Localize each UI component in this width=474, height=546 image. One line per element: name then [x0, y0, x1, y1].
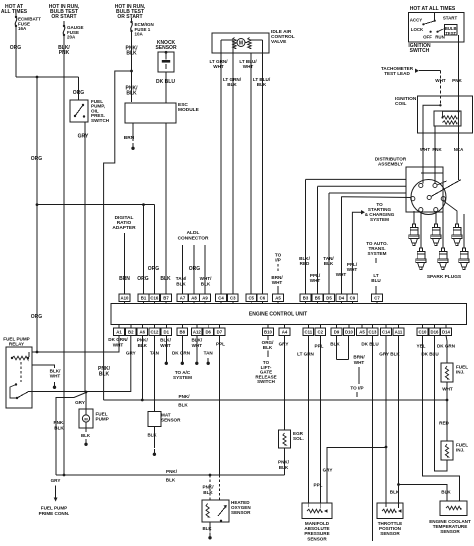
- svg-text:TAN: TAN: [150, 351, 160, 356]
- svg-text:BLK: BLK: [324, 261, 334, 266]
- svg-text:PNK/: PNK/: [137, 338, 149, 343]
- svg-text:WHT: WHT: [272, 280, 283, 285]
- svg-text:BLK: BLK: [178, 403, 188, 408]
- wire BLK pin D9 to junction U: [336, 335, 338, 359]
- ground arrow fuel pump: [85, 439, 87, 443]
- svg-text:WHT: WHT: [442, 387, 453, 392]
- svg-text:BLK: BLK: [126, 91, 137, 97]
- wire BLK/WHT pin B8 to arrow: [181, 335, 183, 358]
- svg-text:NCA: NCA: [454, 147, 464, 152]
- svg-text:TEST: TEST: [445, 31, 456, 36]
- wire TAN pin A12 to arrow: [196, 335, 198, 358]
- svg-text:PNK/: PNK/: [179, 394, 191, 399]
- wire GRY pin A4 to EGR solenoid: [284, 335, 286, 430]
- svg-text:PPL: PPL: [315, 344, 324, 349]
- svg-text:TEST LEAD: TEST LEAD: [384, 71, 410, 76]
- svg-text:SWITCH: SWITCH: [91, 118, 110, 123]
- wire DK GRN pin D14 to fuel injector 1: [446, 335, 447, 363]
- svg-text:PPL: PPL: [314, 483, 323, 488]
- wire ORG/BLK pin B10 to liftgate switch: [267, 335, 269, 340]
- svg-text:ORG: ORG: [137, 276, 149, 282]
- svg-text:B5: B5: [315, 296, 321, 301]
- svg-text:BLK: BLK: [176, 282, 186, 287]
- svg-text:A5: A5: [275, 296, 281, 301]
- pin D5 (ECU top): [328, 302, 330, 304]
- pin D1 (ECU bottom): [165, 325, 167, 329]
- svg-text:RED: RED: [439, 421, 449, 426]
- svg-text:C10: C10: [419, 329, 427, 334]
- svg-text:SENSOR: SENSOR: [440, 529, 460, 534]
- svg-text:INJ.: INJ.: [456, 448, 464, 453]
- svg-text:20A: 20A: [67, 35, 76, 40]
- svg-text:PNK/: PNK/: [278, 460, 290, 465]
- pin C11 (ECU bottom): [307, 325, 309, 329]
- svg-text:BLK: BLK: [160, 276, 171, 282]
- pin D16 (ECU bottom): [434, 325, 436, 329]
- wire WHT coil to distributor: [422, 133, 424, 167]
- distributor rotor line to coil tower: [431, 180, 461, 197]
- svg-text:BLK: BLK: [257, 82, 267, 87]
- component fuel pump: [79, 409, 93, 428]
- svg-text:A9: A9: [202, 296, 208, 301]
- svg-text:OR START: OR START: [117, 14, 142, 20]
- wire PPL/WHT crank signal to pin C9: [352, 212, 361, 294]
- wire PNK from ignition switch to coil: [458, 35, 460, 111]
- ignition switch battery stub: [434, 13, 436, 21]
- wire PNK/BLK ignition rail y=400: [104, 399, 447, 401]
- svg-text:OFF: OFF: [423, 35, 432, 40]
- svg-text:CONNECTOR: CONNECTOR: [178, 235, 209, 241]
- svg-text:BLK: BLK: [330, 342, 340, 347]
- spark plug 3: [455, 224, 458, 228]
- wire LT BLU/BLK IAC to pin C6: [261, 53, 263, 294]
- svg-text:PNK/: PNK/: [203, 485, 215, 490]
- IAC left coil: [233, 38, 237, 49]
- svg-text:C7: C7: [374, 296, 380, 301]
- wire dash to TO I/P: [358, 367, 360, 384]
- spark plug 1: [412, 224, 415, 228]
- svg-text:ORG: ORG: [31, 314, 43, 320]
- svg-text:BLK: BLK: [166, 478, 176, 483]
- wire DK BLU pin D16 injector return: [435, 335, 448, 471]
- svg-text:WHT: WHT: [336, 272, 347, 277]
- wire ORG horizontal rail y=204.6: [37, 204, 154, 206]
- spark plug 4: [419, 248, 422, 252]
- svg-text:B1: B1: [141, 296, 147, 301]
- pin B7 (ECU top): [165, 302, 167, 304]
- node junction PNK/BLK rail at (142.5,400): [141, 399, 144, 402]
- svg-text:D5: D5: [326, 296, 332, 301]
- svg-text:GRY BLK: GRY BLK: [379, 352, 400, 357]
- svg-text:BLK: BLK: [54, 425, 64, 430]
- wire PPL pin D6 down to oxygen sensor rail: [218, 335, 220, 475]
- svg-text:BLK: BLK: [227, 82, 237, 87]
- component TPS sensor: [377, 503, 403, 519]
- svg-text:SYSTEM: SYSTEM: [173, 375, 192, 380]
- svg-text:WHT: WHT: [50, 374, 61, 379]
- svg-text:PNK: PNK: [432, 147, 442, 152]
- svg-text:ORG: ORG: [189, 266, 201, 272]
- svg-text:ALDL: ALDL: [187, 230, 200, 236]
- svg-text:ORG: ORG: [10, 45, 22, 51]
- arrow D1 to A/C: [181, 358, 183, 362]
- wire WHT dashed from tach lead to ignition coil: [439, 71, 441, 106]
- svg-text:BRN: BRN: [119, 276, 130, 282]
- svg-text:PUMP: PUMP: [96, 417, 109, 422]
- svg-text:C5: C5: [248, 296, 254, 301]
- svg-text:SPARK PLUGS: SPARK PLUGS: [427, 274, 462, 280]
- svg-text:SWITCH: SWITCH: [410, 48, 430, 54]
- ignition switch contacts: [422, 23, 424, 25]
- wire BLK ground to TPS: [398, 485, 400, 504]
- svg-text:BLU: BLU: [371, 278, 381, 283]
- svg-text:DK GRN: DK GRN: [172, 351, 191, 356]
- svg-text:D10: D10: [345, 329, 353, 334]
- svg-text:SENSOR: SENSOR: [155, 45, 177, 51]
- wire ORG ALDL to pin A8: [193, 245, 195, 294]
- svg-text:B2: B2: [128, 329, 134, 334]
- svg-text:ALL TIMES: ALL TIMES: [1, 9, 28, 15]
- wire LT GRN pin C11 to MAP sensor: [307, 335, 309, 503]
- svg-text:A6: A6: [140, 329, 146, 334]
- svg-text:BRN/: BRN/: [353, 355, 365, 360]
- svg-text:BLK: BLK: [201, 282, 211, 287]
- wire YEL pin C10 to ECT sensor: [423, 335, 460, 501]
- wire BLK fuel pump to ground: [85, 428, 87, 432]
- fuse GAUGE FUSE 20A: [63, 25, 65, 27]
- wire GRY reference rail to MAP: [327, 448, 386, 504]
- svg-text:PNK: PNK: [59, 50, 70, 56]
- arrow to starting system: [361, 210, 365, 214]
- ignition coil internal connections: [439, 104, 441, 106]
- svg-text:TO I/P: TO I/P: [350, 386, 363, 391]
- component fuel pump relay box: [6, 347, 32, 408]
- svg-text:C13: C13: [369, 329, 377, 334]
- svg-text:B10: B10: [264, 329, 272, 334]
- wire PPL dashed to oxygen sensor: [218, 475, 220, 500]
- svg-text:YEL: YEL: [417, 344, 426, 349]
- component MAP sensor: [302, 503, 332, 519]
- wire WHT/BLK ALDL to pin A9: [204, 245, 206, 294]
- pin A6 (ECU bottom): [141, 325, 143, 329]
- svg-text:VALVE: VALVE: [271, 39, 287, 45]
- fuse ECM/BATT FUSE 16A: [15, 16, 17, 18]
- wire BLK ground rail to ECT: [399, 485, 448, 502]
- ignition switch bulb test terminal box: [445, 25, 458, 36]
- svg-text:D7: D7: [217, 329, 223, 334]
- svg-text:C6: C6: [260, 296, 266, 301]
- distributor internal link: [421, 172, 443, 174]
- svg-text:ENGINE CONTROL UNIT: ENGINE CONTROL UNIT: [249, 312, 307, 318]
- wire GRY junction down to TPS: [385, 447, 387, 503]
- node junction at (37,204.6): [36, 203, 39, 206]
- wire ORG from ECM/BATT fuse down: [15, 13, 17, 16]
- wire ORG to pin C16: [153, 205, 155, 295]
- svg-text:OR START: OR START: [51, 14, 76, 20]
- pin C10 (ECU bottom): [422, 325, 424, 329]
- pin D4 (ECU top): [340, 302, 342, 304]
- svg-text:D9: D9: [334, 329, 340, 334]
- pin A10 (ECU top): [124, 302, 126, 304]
- ground arrow BRN (ESC): [132, 143, 134, 147]
- pin D7 (ECU bottom): [218, 325, 220, 329]
- wire spark plug 6: [463, 214, 465, 248]
- svg-text:RELAY: RELAY: [9, 342, 24, 347]
- component ignition coil box: [418, 96, 473, 133]
- wire ORG vertical main drop x=37: [36, 77, 38, 352]
- svg-text:WHT/: WHT/: [200, 276, 212, 281]
- svg-text:BLK: BLK: [263, 345, 273, 350]
- svg-text:SWITCH: SWITCH: [257, 379, 275, 384]
- pin C3 (ECU top): [232, 302, 234, 304]
- svg-text:GRY: GRY: [323, 468, 333, 473]
- wire GRY junction to fuel pump: [85, 392, 87, 409]
- svg-text:GRY: GRY: [78, 134, 89, 140]
- svg-text:BLK: BLK: [138, 343, 148, 348]
- pin A11 (ECU bottom): [398, 325, 400, 329]
- wire PPL pin C2 to MAP sensor: [319, 335, 321, 503]
- pin A1 (ECU bottom): [118, 325, 120, 329]
- tachometer test lead arrow and line: [415, 69, 419, 73]
- wire LT BLU to pin C7: [375, 286, 377, 294]
- wire DK GRN/WHT pin A1 to fuel pump relay coil: [32, 335, 119, 352]
- svg-text:C3: C3: [230, 296, 236, 301]
- svg-text:C16: C16: [150, 296, 158, 301]
- svg-text:DK BLU: DK BLU: [361, 342, 379, 347]
- pin B5 (ECU top): [317, 302, 319, 304]
- svg-text:A5: A5: [359, 329, 365, 334]
- svg-text:TAN: TAN: [204, 351, 214, 356]
- pin C4 (ECU top): [220, 302, 222, 304]
- node junction rail end at (447,400): [446, 399, 449, 402]
- spark plug 5: [441, 248, 444, 252]
- svg-text:10A: 10A: [135, 32, 144, 37]
- svg-text:BLK: BLK: [147, 433, 157, 438]
- component ignition switch box: [409, 13, 465, 43]
- component knock sensor: [158, 52, 174, 72]
- node junction sensor ground at (391.5,484.5): [397, 483, 400, 486]
- svg-text:WHT: WHT: [160, 343, 171, 348]
- svg-text:START: START: [443, 16, 458, 21]
- wire TAN/BLK ALDL to pin A7: [182, 245, 184, 294]
- svg-text:WHT: WHT: [113, 342, 124, 347]
- svg-text:C9: C9: [350, 296, 356, 301]
- svg-text:RED: RED: [300, 261, 310, 266]
- pin C13 (ECU bottom): [372, 325, 374, 329]
- label TO LIFT-GATE RELEASE SWITCH: [267, 351, 269, 358]
- ground arrow MAT: [153, 449, 155, 453]
- svg-text:M: M: [239, 41, 243, 47]
- wire BLK from ESC module down to pin B7: [165, 123, 167, 294]
- svg-text:GRY: GRY: [75, 400, 85, 405]
- wire PNK/BLK branch left and down (stepped): [104, 71, 132, 400]
- svg-text:ORG: ORG: [73, 90, 85, 96]
- pin B1 (ECU top): [143, 302, 145, 304]
- component heated oxygen sensor: [202, 500, 229, 522]
- wire spark plug 4: [420, 212, 422, 248]
- svg-text:A8: A8: [191, 296, 197, 301]
- svg-text:B8: B8: [180, 329, 186, 334]
- wire PNK/BLK from ECM/IGN fuse: [131, 18, 133, 21]
- component ESC module: [125, 103, 176, 123]
- svg-text:BLK: BLK: [202, 526, 212, 531]
- svg-text:GRY: GRY: [51, 478, 61, 483]
- connector fuel pump prime: [55, 486, 57, 498]
- component MAT sensor: [148, 412, 161, 427]
- svg-text:A7: A7: [180, 296, 186, 301]
- svg-text:A11: A11: [395, 329, 403, 334]
- svg-text:PNK: PNK: [452, 78, 462, 83]
- node junction at (143,204.6): [142, 203, 145, 206]
- pin A7 (ECU top): [182, 302, 184, 304]
- svg-text:WHT: WHT: [310, 278, 321, 283]
- pin A5 (ECU bottom): [361, 325, 363, 329]
- wire spark plug 3: [443, 201, 457, 224]
- svg-text:BLK: BLK: [81, 433, 91, 438]
- svg-text:SENSOR: SENSOR: [380, 531, 400, 536]
- svg-text:BLK: BLK: [279, 465, 289, 470]
- pin C9 (ECU top): [351, 302, 353, 304]
- svg-text:C2: C2: [318, 329, 324, 334]
- wire BLK oxygen sensor ground: [209, 522, 211, 532]
- wire LT GRN/BLK IAC to pin C3: [232, 53, 234, 294]
- svg-text:DK BLU: DK BLU: [156, 79, 175, 85]
- svg-text:BLK: BLK: [441, 490, 451, 495]
- svg-text:D1: D1: [164, 329, 170, 334]
- svg-text:16A: 16A: [18, 26, 27, 31]
- svg-text:ACCY: ACCY: [410, 18, 423, 23]
- relay armature dashed link: [20, 362, 22, 382]
- svg-text:I/P: I/P: [275, 258, 281, 263]
- wire TAN/BLK distributor to pin D5: [329, 192, 406, 194]
- wire NCA coil secondary: [458, 111, 460, 180]
- wire spark plug 2: [435, 211, 437, 224]
- component fuel pump oil pressure switch: [70, 100, 88, 122]
- svg-text:DK BLU: DK BLU: [421, 352, 439, 357]
- component engine coolant temperature sensor: [440, 501, 467, 516]
- node junction 5V ref at (380,447): [385, 446, 388, 449]
- wire D10 to junction U: [348, 335, 350, 359]
- pin B3 (ECU top): [305, 302, 307, 304]
- node junction fuel pump feed: [85, 391, 88, 394]
- wire DK BLU knock sensor to ESC module: [165, 72, 167, 103]
- node junction ORG joins relay line: [36, 351, 39, 354]
- svg-text:PRIME CONN.: PRIME CONN.: [39, 511, 70, 516]
- svg-text:GRY: GRY: [126, 351, 136, 356]
- ground arrow BLK/WHT: [54, 382, 56, 386]
- svg-text:LOCK: LOCK: [411, 27, 424, 32]
- svg-text:D16: D16: [431, 329, 439, 334]
- svg-text:ORG: ORG: [148, 266, 160, 272]
- svg-text:WHT: WHT: [354, 360, 365, 365]
- svg-text:RUN: RUN: [435, 35, 445, 40]
- pin A4 (ECU bottom): [284, 325, 286, 329]
- component idle air control valve: [212, 33, 269, 53]
- arrow A12: [207, 358, 209, 362]
- svg-text:BRN: BRN: [124, 135, 135, 141]
- svg-text:BLK: BLK: [126, 51, 137, 57]
- node junction ORG at (37,77): [36, 76, 39, 79]
- pin C5 (ECU top): [250, 302, 252, 304]
- svg-text:WHT: WHT: [347, 267, 358, 272]
- distributor cap circle: [411, 180, 446, 215]
- svg-text:A1: A1: [116, 329, 122, 334]
- wire dashed to A5: [277, 264, 279, 272]
- svg-text:A10: A10: [121, 296, 129, 301]
- distributor rotor center terminal: [427, 195, 431, 199]
- svg-text:C4: C4: [218, 296, 224, 301]
- relay switch contacts: [15, 383, 17, 385]
- wire GRY from oil pressure switch down to fuel pump node: [84, 122, 86, 392]
- svg-text:A4: A4: [282, 329, 288, 334]
- pin C12 (ECU bottom): [153, 325, 155, 329]
- svg-text:INJ.: INJ.: [456, 370, 464, 375]
- svg-text:BLK: BLK: [390, 490, 400, 495]
- wire BRN from ESC module to ground arrow: [132, 123, 134, 141]
- distributor internal stubs: [422, 167, 424, 184]
- pin B8 (ECU bottom): [181, 325, 183, 329]
- ignition coil windings: [443, 116, 458, 120]
- component engine control unit box: [111, 304, 467, 325]
- relay coil: [28, 352, 30, 357]
- arrow B8: [196, 358, 198, 362]
- svg-text:LT GRN: LT GRN: [297, 352, 314, 357]
- svg-text:TAN/: TAN/: [176, 276, 187, 281]
- wire ORG horizontal to oil pressure switch: [16, 76, 79, 78]
- svg-text:HOT AT ALL TIMES: HOT AT ALL TIMES: [410, 6, 456, 12]
- node junction PNK/BLK at (131.5,71): [130, 70, 133, 73]
- svg-text:A12: A12: [193, 329, 201, 334]
- wire GRY junction to prime connector: [56, 393, 86, 476]
- svg-text:WHT: WHT: [243, 64, 254, 69]
- svg-text:DK GRN: DK GRN: [437, 344, 456, 349]
- wire spark plug 5: [442, 201, 444, 248]
- wire RED rail to fuel injector 2: [446, 400, 448, 441]
- wire PNK/BLK dashed to oxygen sensor: [209, 475, 211, 500]
- pin D10 (ECU bottom): [348, 325, 350, 329]
- svg-text:MODULE: MODULE: [178, 107, 200, 113]
- wire BRN digital ratio adapter to pin A10: [124, 233, 126, 294]
- pin C7 (ECU top): [376, 302, 378, 304]
- svg-text:B7: B7: [163, 296, 169, 301]
- svg-text:COIL: COIL: [395, 101, 407, 107]
- svg-text:SENSOR: SENSOR: [161, 418, 181, 423]
- ignition coil inner box: [434, 111, 461, 126]
- wire DK GRN pin D1 to A/C arrow: [165, 335, 167, 358]
- node junction BLK/PNK drop at (64,475): [63, 474, 66, 477]
- wire BLK MAT sensor to ground: [153, 427, 155, 448]
- pin A9 (ECU top): [204, 302, 206, 304]
- svg-text:SYSTEM: SYSTEM: [368, 251, 387, 256]
- distributor pickup line: [437, 181, 447, 185]
- wire spark plug 1: [413, 211, 415, 224]
- wire PNK coil to distributor: [434, 126, 436, 167]
- wire PNK/BLK pin A6 to rail: [141, 335, 143, 400]
- svg-text:GRY: GRY: [279, 342, 289, 347]
- svg-text:B3: B3: [303, 296, 309, 301]
- wire WHT distributor to pin D4: [341, 196, 411, 199]
- component EGR solenoid: [279, 430, 291, 448]
- pin D9 (ECU bottom): [336, 325, 338, 329]
- wire ORG into oil pressure switch: [78, 77, 80, 100]
- svg-text:PPL: PPL: [216, 342, 225, 347]
- wire PPL/WHT distributor to pin B5: [318, 185, 407, 187]
- pin B2 (ECU bottom): [130, 325, 132, 329]
- pin D6 (ECU bottom): [207, 325, 209, 329]
- IAC right coil: [248, 38, 252, 49]
- pin B10 (ECU bottom): [267, 325, 269, 329]
- pin A12 (ECU bottom): [196, 325, 198, 329]
